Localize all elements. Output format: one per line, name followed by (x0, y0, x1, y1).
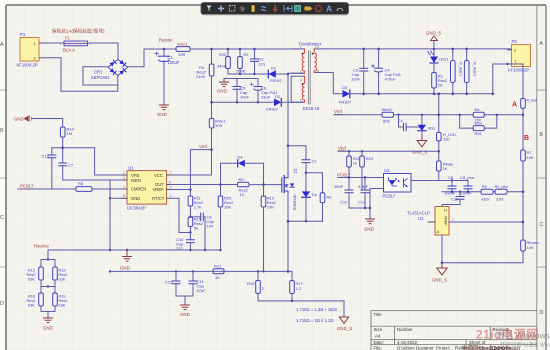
svg-text:Res2: Res2 (59, 273, 68, 277)
svg-text:Vref: Vref (338, 145, 347, 150)
svg-text:C7: C7 (68, 163, 74, 168)
wire OUT (171, 184, 238, 186)
svg-text:Wire1: Wire1 (382, 107, 393, 112)
resistor R11 (188, 196, 204, 217)
svg-text:P1: P1 (20, 32, 26, 37)
svg-text:10K: 10K (224, 205, 231, 210)
wire U3 K to column (449, 221, 523, 223)
resistor Rvref series (382, 107, 422, 124)
ground GND under C1 (157, 105, 169, 117)
svg-text:U3: U3 (418, 216, 424, 221)
svg-text:A: A (539, 41, 543, 47)
capacitor C8 (190, 213, 214, 250)
toolbar icons (207, 4, 343, 14)
resistor R7 (521, 150, 534, 240)
op-amp U1 UC3842 (123, 165, 172, 210)
capacitor C13 (42, 148, 56, 189)
node rail C2 (253, 48, 256, 51)
wire R9 to gate (249, 184, 282, 186)
wire switch node to transformer pin2 (288, 72, 305, 74)
svg-text:Title: Title (374, 312, 383, 317)
svg-text:R06: R06 (475, 132, 482, 136)
wire RTCT (171, 198, 191, 232)
svg-text:C13: C13 (42, 154, 50, 159)
wire ramp bus (110, 270, 292, 272)
wire switch node down to Q1 drain (287, 74, 289, 172)
resistor R1 (236, 49, 249, 74)
wire C5 C6 top (224, 79, 258, 87)
resistor Rdum1 (451, 48, 463, 95)
wire pin6 to D3 (324, 73, 343, 94)
bridge rectifier CR1 (91, 60, 128, 81)
svg-text:U1: U1 (128, 165, 134, 170)
svg-text:CMPEN: CMPEN (131, 187, 146, 192)
resistor R17 (290, 271, 304, 301)
wire loop bridge left corner (83, 67, 118, 85)
wire VREF (171, 190, 191, 197)
svg-text:GND: GND (157, 112, 167, 117)
resistor R9 (238, 177, 250, 197)
svg-text:2: 2 (123, 171, 125, 175)
diode D1 (268, 66, 282, 84)
svg-text:2K: 2K (438, 83, 443, 88)
node U3 anode (441, 262, 444, 265)
svg-text:R1: R1 (244, 52, 250, 57)
resistor R12 (27, 260, 49, 287)
svg-text:R8: R8 (78, 181, 84, 186)
node B tap (522, 114, 525, 117)
wire VFB riser (95, 148, 127, 175)
ground GND opto (364, 219, 375, 232)
capacitor C7 (59, 148, 110, 180)
node aux rail (210, 101, 213, 104)
wire primary gnd bus (48, 249, 221, 251)
svg-text:4: 4 (300, 78, 302, 82)
wire vref2 rail (338, 150, 439, 152)
svg-text:D2: D2 (275, 94, 281, 99)
node switch (287, 73, 290, 76)
wire pin4 down (290, 76, 292, 102)
resistor Wire1 startup (171, 102, 227, 175)
svg-text:GND: GND (364, 227, 374, 232)
primary winding (302, 49, 304, 73)
wire opto cathode (370, 189, 384, 220)
resistor R_test (521, 98, 537, 121)
secondary winding (314, 49, 316, 73)
wire U1 gnd pin (110, 197, 127, 199)
svg-text:B: B (0, 128, 4, 134)
resistor R4 (196, 49, 214, 102)
svg-text:5k: 5k (194, 226, 198, 231)
resistor R13 (48, 260, 67, 287)
svg-text:B: B (539, 132, 543, 138)
zener VDz (418, 114, 435, 141)
zener Ds (302, 173, 317, 221)
resistor Rlower (521, 240, 540, 251)
svg-text:VCC: VCC (154, 173, 163, 178)
wire U3 anode down (442, 235, 523, 263)
svg-text:R16: R16 (247, 281, 255, 286)
capacitor C5 (233, 86, 250, 103)
wire top rail left (164, 48, 176, 50)
resistor R26 (217, 49, 230, 74)
wire Rtest tap (508, 64, 524, 98)
wire divider mid (52, 147, 95, 149)
capacitor C3 (351, 48, 368, 95)
svg-text:1.7k: 1.7k (194, 205, 202, 210)
svg-text:10R: 10R (178, 52, 185, 57)
svg-text:Cs: Cs (312, 159, 317, 164)
svg-text:GND_S: GND_S (337, 326, 352, 331)
resistor R10 (261, 185, 277, 272)
polarity dots (302, 53, 304, 55)
connector P2 (508, 39, 531, 73)
svg-text:1K: 1K (215, 275, 220, 280)
zone letters right (539, 41, 543, 316)
svg-text:KF1000-2P: KF1000-2P (508, 68, 529, 73)
svg-text:GND_S: GND_S (432, 278, 447, 283)
wire divider drop (47, 250, 49, 260)
node clamp tee (305, 172, 308, 175)
svg-text:H: H (444, 209, 447, 213)
wire secondary top rail (324, 48, 511, 50)
wire secondary bottom rail (350, 93, 493, 95)
svg-text:1.715Ω = 1.3Ω + 3Ω/2: 1.715Ω = 1.3Ω + 3Ω/2 (296, 307, 338, 312)
svg-text:D3: D3 (342, 85, 348, 90)
wire opto collector (411, 180, 439, 182)
optocoupler U2 (383, 168, 412, 199)
svg-text:200K: 200K (236, 69, 246, 74)
svg-text:GND: GND (217, 89, 227, 94)
svg-text:1: 1 (300, 45, 302, 49)
wire aux lower rail (212, 101, 275, 103)
svg-text:33uF: 33uF (261, 95, 271, 100)
wire gnd port to R14 (32, 119, 63, 128)
svg-text:6: 6 (317, 69, 319, 73)
ground GND under U1 (120, 250, 132, 271)
svg-text:1: 1 (452, 218, 454, 222)
svg-text:101: 101 (259, 62, 266, 67)
power port GND_S top (426, 31, 441, 51)
svg-text:Rsense: Rsense (34, 244, 49, 249)
node cz (397, 114, 399, 116)
wire top rail to transformer pin1 (190, 48, 305, 50)
wire D2 to pin5 (281, 101, 304, 103)
svg-text:KF1000-2P: KF1000-2P (17, 63, 38, 68)
capacitor C12 (334, 178, 370, 209)
ground GND r17 (337, 317, 352, 331)
capacitor Cz (398, 115, 422, 131)
svg-text:10: 10 (315, 45, 319, 49)
wire vref riser (190, 150, 211, 190)
svg-text:10R: 10R (215, 123, 222, 128)
svg-text:R18: R18 (28, 295, 35, 299)
node vref riser (189, 188, 192, 191)
node rtct join (189, 231, 191, 233)
svg-text:4.8nF: 4.8nF (358, 184, 369, 189)
transformer T1 (291, 42, 324, 111)
capacitor C10 (176, 233, 194, 252)
svg-text:GND_S: GND_S (412, 150, 427, 155)
svg-text:340K: 340K (217, 64, 227, 69)
capacitor Cs (302, 159, 316, 173)
wire clamp branch (288, 146, 306, 160)
diode tl431 U3 (407, 207, 453, 236)
svg-text:Size: Size (374, 327, 383, 332)
svg-text:21ic电源网: 21ic电源网 (476, 327, 539, 342)
power port GND left (14, 116, 31, 122)
svg-text:C: C (539, 222, 543, 228)
svg-text:KBPC601: KBPC601 (91, 75, 110, 80)
svg-text:BLX-A: BLX-A (63, 48, 75, 53)
svg-text:D: D (0, 301, 4, 307)
svg-text:Number: Number (397, 327, 413, 332)
ground GND_S z (412, 141, 427, 155)
svg-text:1k: 1k (353, 161, 357, 166)
diode D4 (238, 155, 245, 167)
wire clamp bottom (288, 220, 323, 222)
floating toolbar (201, 3, 349, 16)
svg-text:LED1: LED1 (439, 57, 450, 62)
svg-text:10K: 10K (267, 205, 274, 210)
svg-text:10K: 10K (527, 245, 534, 250)
node bus junctions (109, 249, 111, 251)
svg-text:10nF: 10nF (240, 95, 250, 100)
svg-text:1: 1 (123, 185, 125, 189)
capacitor C16 (442, 192, 464, 207)
wire sense bottom (41, 312, 55, 319)
svg-text:Res2: Res2 (59, 299, 68, 303)
wire D4 branch up (221, 163, 238, 184)
svg-text:UC3842P: UC3842P (127, 205, 146, 210)
resistor R19 (48, 287, 67, 312)
resistor R2 (481, 185, 495, 201)
svg-text:7: 7 (170, 171, 172, 175)
svg-text:104: 104 (207, 224, 214, 229)
capacitor C11 (189, 271, 206, 296)
svg-text:C8_pho: C8_pho (460, 175, 475, 180)
svg-text:2: 2 (300, 69, 302, 73)
svg-text:U2: U2 (384, 168, 390, 173)
svg-text:C: C (0, 215, 4, 221)
resistor R2pho (495, 185, 524, 201)
aux winding (302, 76, 304, 102)
resistor Ra (473, 108, 484, 123)
capacitor C1 (155, 49, 180, 105)
svg-text:1k: 1k (443, 166, 447, 171)
svg-text:8: 8 (170, 185, 172, 189)
svg-text:Q1: Q1 (294, 169, 299, 175)
resistor R24 (360, 150, 374, 189)
node divider mid (61, 147, 64, 150)
node fb divider (522, 190, 525, 193)
resistor Rs (306, 173, 331, 221)
node isen gnd pin (109, 197, 111, 199)
resistor R25 (218, 185, 234, 251)
svg-text:R_test: R_test (527, 99, 537, 103)
svg-text:D4: D4 (238, 155, 244, 160)
node cathode gnd riser (364, 207, 366, 209)
svg-text:P2: P2 (512, 39, 518, 44)
svg-text:100uF: 100uF (168, 60, 180, 65)
resistor R16 (247, 271, 265, 301)
svg-text:Cz: Cz (398, 118, 403, 123)
svg-text:Res2: Res2 (27, 273, 36, 277)
svg-text:R_dum2: R_dum2 (473, 62, 477, 76)
svg-text:TL431ACLP: TL431ACLP (407, 211, 430, 216)
diode D3 (339, 85, 352, 105)
svg-text:15nF: 15nF (334, 184, 344, 189)
wire D4 to gate node (245, 163, 264, 184)
connector P1 (17, 32, 44, 68)
wire B row rail (421, 114, 523, 116)
svg-text:FR307: FR307 (339, 100, 352, 105)
resistor Rbias (411, 151, 453, 180)
wire sense mid (41, 286, 55, 288)
svg-text:IRF840S: IRF840S (293, 195, 298, 211)
svg-text:R13: R13 (59, 269, 66, 273)
svg-text:RT/CT: RT/CT (152, 196, 165, 201)
node rail R26 (227, 48, 230, 51)
capacitor C15 (165, 271, 180, 296)
svg-text:63K: 63K (59, 304, 66, 308)
svg-text:B: B (524, 135, 529, 142)
svg-text:C8: C8 (448, 175, 454, 180)
pin stubs (291, 49, 324, 102)
svg-text:A4: A4 (375, 334, 381, 339)
wire P1.1 to F1 (43, 42, 64, 44)
svg-text:GND: GND (43, 326, 53, 331)
node R11 R15 (189, 216, 191, 218)
svg-text:240K: 240K (196, 74, 206, 79)
node sense top (47, 258, 49, 260)
resistor R14 (60, 127, 74, 148)
ground GND ramp (180, 305, 190, 317)
svg-text:C16: C16 (451, 197, 459, 202)
wire r16 r17 bottom (258, 301, 344, 317)
svg-text:C12: C12 (340, 200, 348, 205)
capacitor C2 (251, 49, 266, 74)
svg-text:470uF: 470uF (385, 77, 397, 82)
node OUT R25 (219, 183, 222, 186)
svg-text:5: 5 (300, 98, 302, 102)
svg-text:4-15-2022: 4-15-2022 (397, 340, 418, 345)
svg-text:3.6K: 3.6K (496, 197, 504, 201)
svg-text:GND: GND (120, 266, 130, 271)
watermark 激活 Windows (496, 331, 550, 349)
resistor R5 series (176, 41, 190, 57)
capacitor C8s (444, 175, 456, 196)
resistor R22 (347, 150, 361, 177)
wire cap bottoms (442, 191, 481, 193)
svg-text:ISEN: ISEN (131, 178, 141, 183)
resistor R3 (432, 73, 448, 96)
svg-text:FR307: FR307 (266, 107, 279, 112)
svg-text:10nF: 10nF (351, 77, 361, 82)
wire F1 to bridge top (88, 43, 119, 60)
title block (371, 311, 537, 350)
svg-text:FR307: FR307 (270, 78, 283, 83)
svg-text:330: 330 (443, 137, 450, 142)
svg-text:VREF: VREF (153, 187, 165, 192)
wire Q1 source down (287, 194, 289, 271)
wire bridge right corner to top rail (128, 49, 165, 67)
svg-text:PC817: PC817 (383, 194, 396, 199)
svg-text:1.2: 1.2 (296, 286, 302, 291)
svg-text:Wire: Wire (475, 121, 483, 125)
svg-text:6: 6 (169, 180, 171, 184)
svg-text:63K: 63K (28, 304, 35, 308)
svg-text:Ds: Ds (312, 192, 317, 197)
wire cmpen net (18, 188, 76, 190)
svg-text:1M: 1M (67, 131, 73, 136)
node r17 bottom (291, 300, 293, 302)
zone letters left (clipped) (0, 42, 4, 307)
wire snubber bottom (228, 73, 268, 75)
node clamp bottom (287, 220, 290, 223)
svg-text:Vref: Vref (199, 144, 208, 149)
svg-text:47pF: 47pF (197, 288, 207, 293)
ground GND sense (43, 318, 53, 331)
svg-text:A: A (0, 42, 4, 48)
svg-text:File:: File: (374, 345, 382, 350)
svg-text:5: 5 (123, 194, 125, 198)
svg-text:432K: 432K (481, 197, 490, 201)
svg-text:R12: R12 (28, 269, 35, 273)
svg-text:R24: R24 (366, 156, 374, 161)
svg-text:Vref: Vref (334, 109, 343, 114)
svg-text:R9: R9 (239, 177, 245, 182)
svg-text:10: 10 (240, 192, 245, 197)
node rail R1 (239, 48, 242, 51)
node junction C1 top (163, 48, 166, 51)
ground GND_S tl431 (432, 263, 447, 283)
capacitor C6 (250, 83, 278, 103)
svg-text:R2_pho: R2_pho (495, 185, 508, 189)
node gate R10 (262, 183, 265, 186)
node snubber C2 (239, 73, 241, 75)
resistor R20 series (213, 264, 224, 281)
svg-text:CR1: CR1 (94, 70, 103, 75)
svg-text:GND_S: GND_S (426, 31, 441, 36)
svg-text:A: A (512, 102, 517, 109)
capacitor C14 (358, 178, 369, 209)
svg-text:R_dum1: R_dum1 (459, 62, 463, 76)
wire P1.2 down and right to bridge bottom (43, 58, 118, 92)
svg-text:保险丝1A(保险丝选?型号): 保险丝1A(保险丝选?型号) (52, 28, 105, 35)
wire P2 pin1 to rail (493, 64, 508, 94)
svg-text:R21: R21 (214, 264, 222, 269)
capacitor C8pho (439, 175, 475, 196)
resistor Rwire parallel (459, 114, 498, 136)
svg-text:806: 806 (383, 119, 390, 124)
svg-text:Rs: Rs (327, 195, 332, 200)
node ramp bus (109, 270, 111, 272)
wire B column (522, 108, 524, 150)
svg-text:GND: GND (14, 117, 24, 122)
svg-text:Wire1: Wire1 (177, 41, 188, 46)
svg-text:R2: R2 (482, 185, 487, 189)
svg-text:EE25-19: EE25-19 (303, 106, 320, 111)
svg-text:A: A (326, 4, 332, 14)
ground GND_S snubber (217, 79, 229, 94)
wire c bottom (176, 296, 193, 305)
transistor Q1 (282, 169, 299, 211)
node sense mid (47, 285, 49, 287)
wire D1 to switch node (276, 73, 288, 75)
svg-text:63K: 63K (59, 278, 66, 282)
diode D2 (266, 94, 281, 112)
